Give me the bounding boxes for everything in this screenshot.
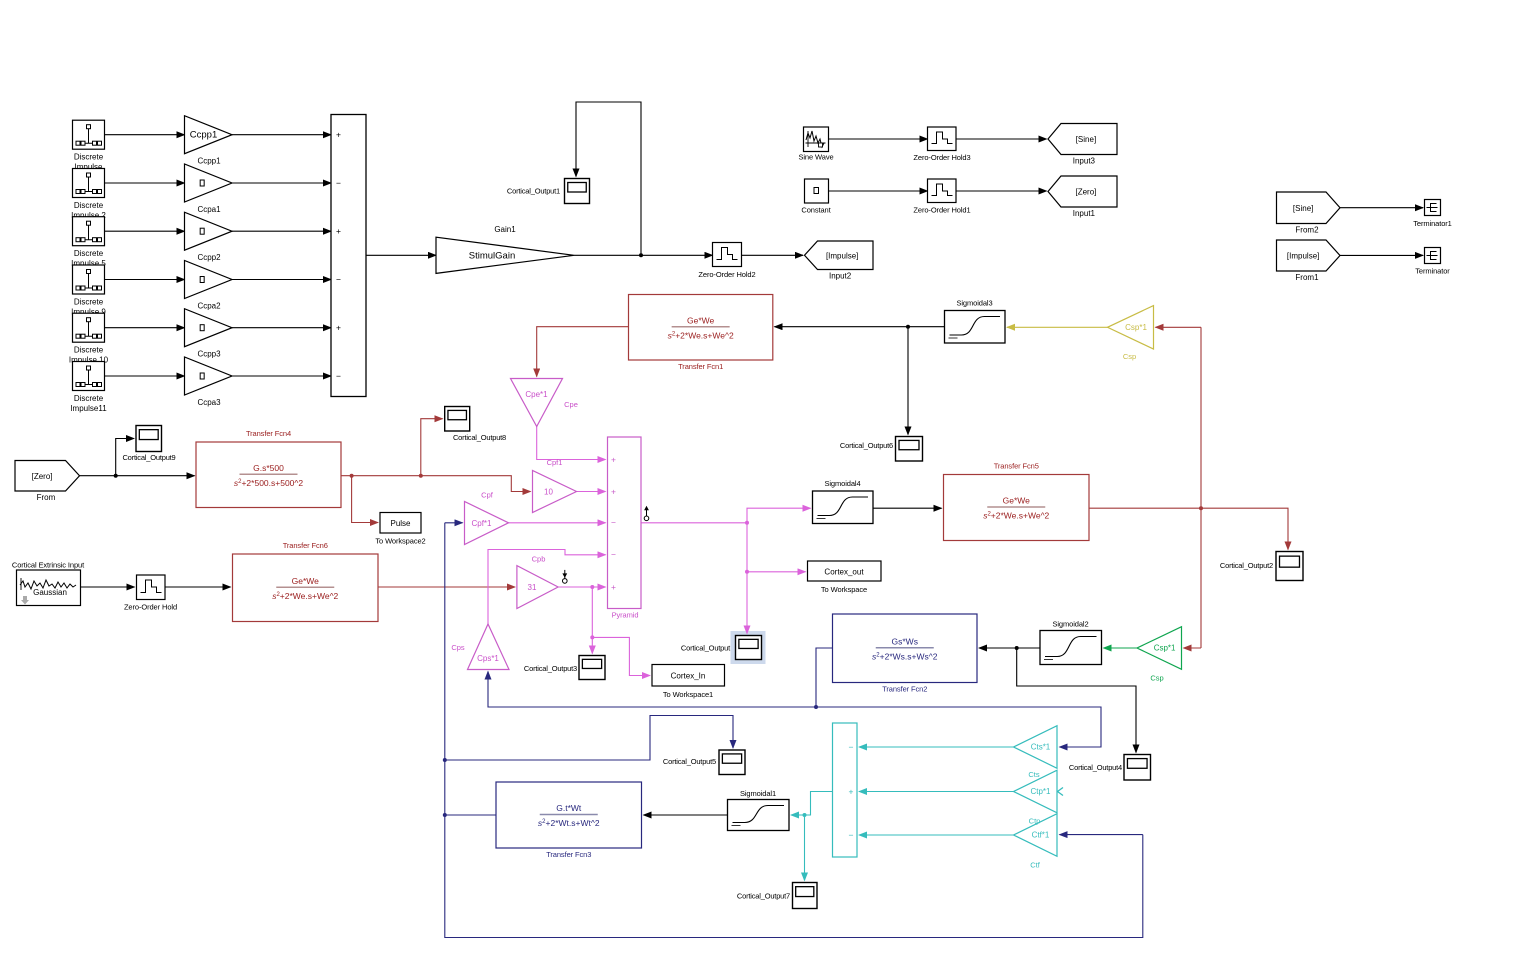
svg-text:Sine Wave: Sine Wave	[798, 153, 833, 162]
svg-text:+: +	[611, 486, 616, 496]
svg-text:Impulse11: Impulse11	[70, 404, 107, 413]
svg-text:Ge*We: Ge*We	[687, 315, 715, 325]
svg-text:Cortex_out: Cortex_out	[824, 568, 864, 577]
svg-text:Transfer Fcn6: Transfer Fcn6	[283, 541, 328, 550]
svg-text:Discrete: Discrete	[74, 346, 104, 355]
svg-text:10: 10	[544, 488, 553, 497]
svg-text:Cpf1: Cpf1	[547, 458, 563, 467]
svg-text:Ctp: Ctp	[1029, 817, 1041, 826]
svg-text:Ccpa1: Ccpa1	[197, 205, 221, 214]
svg-text:Cts: Cts	[1028, 770, 1040, 779]
svg-text:Cortical_Output6: Cortical_Output6	[840, 441, 893, 450]
svg-text:[Zero]: [Zero]	[32, 472, 53, 481]
svg-text:+: +	[336, 226, 341, 236]
svg-text:G.s*500: G.s*500	[253, 463, 284, 473]
svg-text:s2+2*We.s+We^2: s2+2*We.s+We^2	[668, 330, 734, 340]
svg-text:From2: From2	[1295, 226, 1319, 235]
svg-text:Cpf: Cpf	[481, 491, 494, 500]
svg-text:[Sine]: [Sine]	[1076, 135, 1096, 144]
svg-text:From: From	[37, 493, 56, 502]
svg-text:Cpb: Cpb	[532, 555, 546, 564]
svg-text:Ccpp1: Ccpp1	[197, 157, 221, 166]
svg-text:Pulse: Pulse	[390, 519, 411, 528]
svg-text:Gain1: Gain1	[494, 225, 516, 234]
svg-text:Terminator1: Terminator1	[1413, 219, 1452, 228]
svg-text:Gs*Ws: Gs*Ws	[892, 636, 918, 646]
svg-text:Csp*1: Csp*1	[1125, 323, 1147, 332]
svg-text:Cortex_In: Cortex_In	[671, 672, 706, 681]
svg-text:Cortical_Output7: Cortical_Output7	[737, 892, 790, 901]
svg-text:Input3: Input3	[1073, 157, 1096, 166]
svg-text:Ccpa2: Ccpa2	[197, 302, 221, 311]
svg-text:Cortical_Output: Cortical_Output	[681, 644, 731, 653]
svg-text:s2+2*500.s+500^2: s2+2*500.s+500^2	[234, 478, 304, 488]
svg-text:Cpe: Cpe	[564, 400, 578, 409]
svg-text:Transfer Fcn5: Transfer Fcn5	[994, 462, 1039, 471]
svg-text:−: −	[336, 274, 341, 284]
svg-text:+: +	[849, 786, 854, 796]
svg-text:Csp*1: Csp*1	[1154, 644, 1176, 653]
svg-text:To Workspace2: To Workspace2	[375, 537, 425, 546]
svg-text:Terminator: Terminator	[1415, 267, 1450, 276]
svg-text:To Workspace: To Workspace	[821, 585, 867, 594]
svg-text:To Workspace1: To Workspace1	[663, 690, 713, 699]
svg-text:Sigmoidal3: Sigmoidal3	[956, 299, 992, 308]
svg-text:G.t*Wt: G.t*Wt	[556, 803, 582, 813]
svg-text:Discrete: Discrete	[74, 249, 104, 258]
svg-text:s2+2*We.s+We^2: s2+2*We.s+We^2	[272, 591, 338, 601]
svg-text:Cps: Cps	[451, 643, 465, 652]
svg-text:−: −	[611, 518, 616, 528]
svg-text:Cps*1: Cps*1	[477, 654, 499, 663]
svg-text:Csp: Csp	[1123, 352, 1136, 361]
svg-text:StimulGain: StimulGain	[469, 250, 515, 261]
svg-text:Sigmoidal1: Sigmoidal1	[740, 789, 776, 798]
svg-text:Constant: Constant	[801, 206, 831, 215]
svg-text:Input2: Input2	[829, 272, 852, 281]
svg-text:−: −	[611, 550, 616, 560]
svg-text:Zero-Order Hold: Zero-Order Hold	[124, 603, 177, 612]
svg-text:Sigmoidal2: Sigmoidal2	[1052, 620, 1088, 629]
svg-text:Cpf*1: Cpf*1	[471, 519, 492, 528]
svg-text:From1: From1	[1295, 273, 1319, 282]
svg-text:Gaussian: Gaussian	[33, 588, 67, 597]
svg-text:Pyramid: Pyramid	[612, 611, 639, 620]
svg-text:31: 31	[528, 583, 537, 592]
svg-text:Ccpp1: Ccpp1	[190, 130, 217, 141]
svg-text:Discrete: Discrete	[74, 153, 104, 162]
svg-text:Discrete: Discrete	[74, 298, 104, 307]
svg-text:Ctf*1: Ctf*1	[1032, 831, 1050, 840]
svg-text:[Zero]: [Zero]	[1075, 188, 1096, 197]
svg-text:Cts*1: Cts*1	[1031, 743, 1051, 752]
svg-text:Cortical_Output8: Cortical_Output8	[453, 433, 506, 442]
svg-text:−: −	[849, 742, 854, 752]
svg-text:Cortical_Output5: Cortical_Output5	[663, 757, 716, 766]
svg-text:+: +	[336, 323, 341, 333]
svg-text:Transfer Fcn3: Transfer Fcn3	[546, 850, 591, 859]
svg-text:Cortical_Output4: Cortical_Output4	[1069, 763, 1122, 772]
svg-text:+: +	[336, 130, 341, 140]
svg-text:+: +	[611, 454, 616, 464]
svg-text:Ccpp3: Ccpp3	[197, 350, 221, 359]
svg-text:s2+2*We.s+We^2: s2+2*We.s+We^2	[983, 511, 1049, 521]
svg-text:Cortical_Output9: Cortical_Output9	[122, 453, 175, 462]
svg-text:Sigmoidal4: Sigmoidal4	[824, 479, 860, 488]
svg-text:+: +	[611, 582, 616, 592]
svg-text:Zero-Order Hold3: Zero-Order Hold3	[913, 153, 970, 162]
svg-text:Ccpp2: Ccpp2	[197, 253, 221, 262]
svg-text:Input1: Input1	[1073, 209, 1096, 218]
svg-text:Zero-Order Hold1: Zero-Order Hold1	[913, 206, 970, 215]
svg-text:Ctp*1: Ctp*1	[1030, 787, 1051, 796]
svg-text:−: −	[336, 371, 341, 381]
svg-text:[Impulse]: [Impulse]	[826, 251, 858, 260]
svg-text:Transfer Fcn4: Transfer Fcn4	[246, 429, 291, 438]
svg-text:Csp: Csp	[1150, 674, 1163, 683]
svg-text:[Sine]: [Sine]	[1293, 204, 1313, 213]
svg-text:Ccpa3: Ccpa3	[197, 398, 221, 407]
svg-text:Cortical_Output1: Cortical_Output1	[507, 187, 560, 196]
svg-text:Discrete: Discrete	[74, 394, 104, 403]
svg-text:s2+2*Wt.s+Wt^2: s2+2*Wt.s+Wt^2	[538, 818, 600, 828]
svg-text:Cortical_Output3: Cortical_Output3	[524, 664, 577, 673]
svg-text:Cortical Extrinsic Input: Cortical Extrinsic Input	[12, 561, 85, 570]
svg-text:Ge*We: Ge*We	[1003, 496, 1031, 506]
svg-text:−: −	[336, 178, 341, 188]
svg-text:Transfer Fcn1: Transfer Fcn1	[678, 362, 723, 371]
svg-text:Cpe*1: Cpe*1	[525, 390, 548, 399]
svg-text:Zero-Order Hold2: Zero-Order Hold2	[698, 270, 755, 279]
svg-text:Transfer Fcn2: Transfer Fcn2	[882, 685, 927, 694]
svg-text:Ctf: Ctf	[1030, 861, 1041, 870]
svg-text:s2+2*Ws.s+Ws^2: s2+2*Ws.s+Ws^2	[872, 651, 938, 661]
svg-text:Ge*We: Ge*We	[292, 576, 320, 586]
svg-text:Cortical_Output2: Cortical_Output2	[1220, 561, 1273, 570]
svg-text:Discrete: Discrete	[74, 201, 104, 210]
svg-text:−: −	[849, 830, 854, 840]
svg-text:[Impulse]: [Impulse]	[1287, 252, 1319, 261]
